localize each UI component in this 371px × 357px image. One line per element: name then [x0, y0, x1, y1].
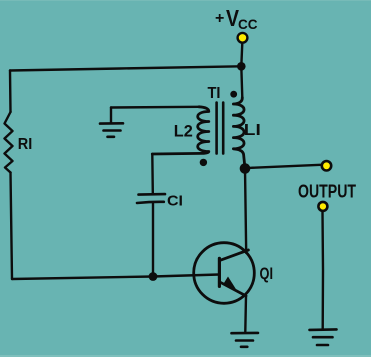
wire L1 junction down to Q1 collector — [245, 169, 246, 253]
terminal output top (yellow) — [322, 161, 331, 170]
svg-text:CC: CC — [238, 17, 258, 32]
wire junction down to L1 top — [241, 66, 242, 97]
transistor Q1 collector stroke — [219, 250, 248, 261]
transformer phasing dot top (L1) — [230, 91, 237, 98]
junction dot at L1 bottom / output — [240, 163, 251, 174]
wire output horizontal — [245, 165, 321, 169]
transformer phasing dot bottom (L2) — [200, 159, 207, 166]
wire C1 bottom to base junction — [152, 204, 154, 277]
wire left vertical upper (top corner down to R1) — [9, 71, 12, 113]
resistor R1 — [5, 112, 13, 173]
inductor L2 (primary winding) — [152, 107, 209, 154]
svg-text:L2: L2 — [174, 122, 193, 140]
svg-text:QI: QI — [260, 264, 274, 283]
svg-text:CI: CI — [167, 192, 183, 209]
svg-text:OUTPUT: OUTPUT — [298, 182, 356, 202]
wire ground stub top-left — [110, 108, 112, 124]
wire Q1 emitter down to ground — [244, 296, 247, 332]
transistor Q1 base bar — [218, 258, 221, 286]
wire Vcc terminal to top junction — [241, 43, 242, 66]
ground symbol bottom-right — [310, 329, 337, 345]
capacitor C1 top plate — [139, 193, 166, 196]
wire output terminal 2 down to ground — [321, 212, 324, 330]
terminal output bottom (yellow) — [318, 202, 327, 211]
terminal +Vcc (yellow) — [238, 33, 248, 43]
wire L2 bottom down to C1 — [151, 154, 154, 193]
svg-text:TI: TI — [208, 85, 221, 102]
ground symbol top-left — [100, 123, 123, 137]
inductor L1 (secondary winding) — [233, 98, 245, 169]
transistor Q1 emitter arrow — [224, 277, 236, 290]
wire left vertical lower (R1 down to bottom corner) — [11, 173, 13, 280]
ground symbol below Q1 — [232, 333, 259, 347]
junction dot at Vcc — [237, 62, 246, 71]
svg-text:RI: RI — [18, 136, 33, 153]
wire ground top-left to L2 top — [111, 106, 199, 109]
svg-text:+: + — [215, 10, 224, 27]
wire top horizontal from left corner to Vcc junction — [10, 66, 241, 70]
capacitor C1 bottom plate (curved) — [137, 202, 164, 203]
wire bottom horizontal to Q1 base — [12, 275, 219, 280]
junction dot at C1/base — [149, 272, 158, 281]
transformer T1 core — [217, 103, 224, 154]
transistor Q1 circle — [194, 243, 255, 304]
transistor Q1 emitter stroke — [219, 282, 246, 296]
svg-text:LI: LI — [244, 122, 261, 139]
